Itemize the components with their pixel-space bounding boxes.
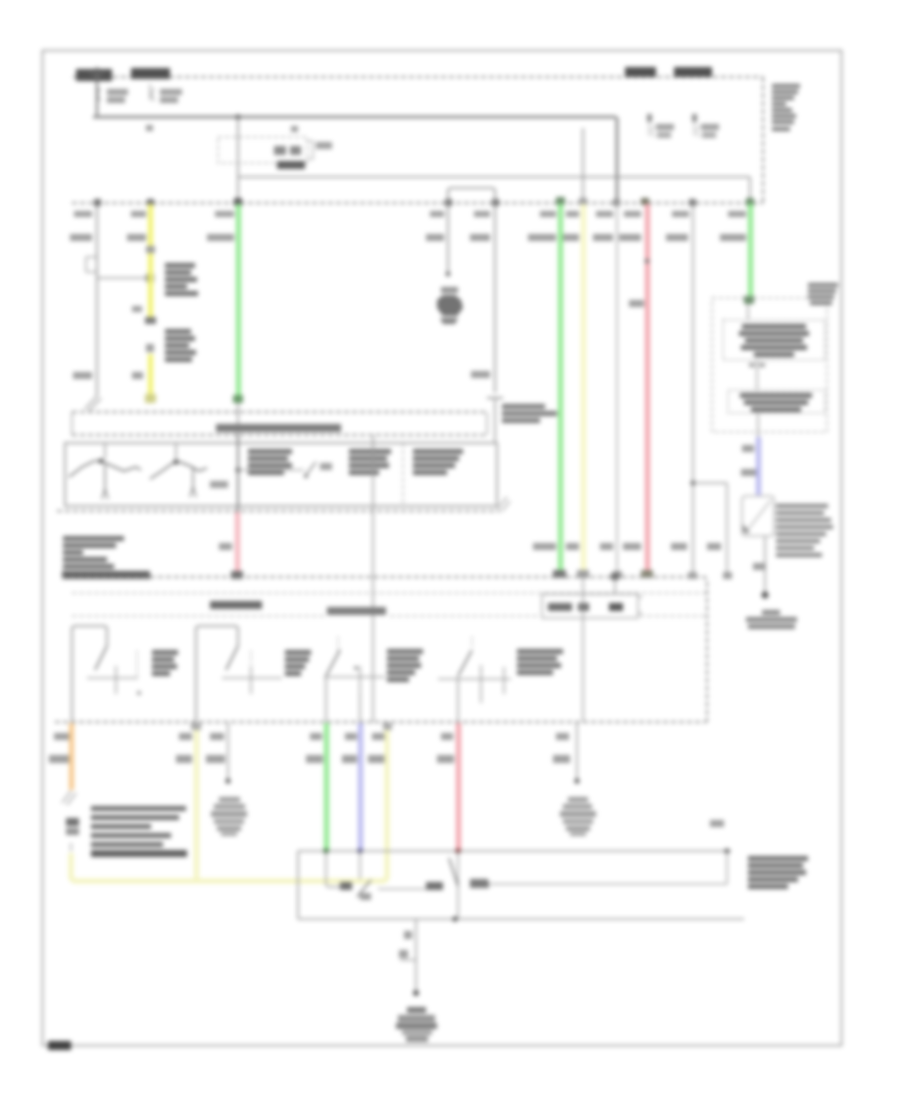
cap middle leg top (191, 723, 201, 730)
label on red mid (629, 300, 644, 307)
wire stub (582, 128, 584, 203)
node dot U left end (446, 272, 451, 277)
pin label 1 (146, 125, 153, 131)
wire battery feed (89, 67, 105, 117)
ground G404 symbol (396, 1007, 437, 1042)
node dots on box top (323, 848, 729, 853)
connector arrow orange (62, 791, 76, 805)
wire blue BLU right (756, 437, 761, 495)
connector corner box right (497, 497, 510, 511)
relay 4 wires down (457, 677, 459, 722)
wire passing through box (237, 435, 239, 512)
multiplex inner unit 2 (dashed) (728, 390, 825, 413)
relay strip header line 2 dashed (72, 615, 706, 617)
fuse F23 (86, 256, 97, 278)
ground dot G401 (225, 778, 230, 783)
connector arrow left (85, 396, 101, 411)
wire long in box (470, 851, 727, 887)
cap red bottom (641, 570, 653, 578)
cap green G3 (744, 296, 754, 304)
fuse box label 1 (76, 69, 112, 81)
bulb component (437, 287, 463, 324)
bracket right between C2 C3 (486, 412, 488, 435)
labels above bus C5 (533, 543, 721, 550)
ground G402 symbol (560, 811, 596, 836)
bus C4 dashed (57, 510, 500, 512)
wire main power bus (thick) (93, 117, 617, 203)
combination light switch label (216, 424, 341, 432)
ground G402 label (563, 797, 592, 809)
relay 4 contact arm (458, 650, 472, 676)
cap green G1 (233, 395, 243, 403)
cap pale yellow bottom (577, 570, 589, 578)
node hot-at-all-times bus (top dashed) (73, 77, 763, 203)
wire to ground right (764, 536, 766, 592)
relay name label (277, 161, 305, 169)
wire horizontal feeder (238, 177, 750, 203)
label left of yellow (132, 372, 143, 379)
relay 1 contact arm (95, 646, 107, 670)
small connector box B234 (542, 594, 642, 618)
connector tick labels (399, 931, 416, 960)
ground label text (746, 610, 797, 629)
label WHT mid (471, 371, 490, 378)
cap yellow top of C2 (145, 397, 155, 403)
ground G401 symbol (211, 811, 247, 836)
relay 1 coil bar (87, 651, 141, 695)
node dot in box (236, 468, 241, 473)
switch wave 1 (69, 458, 141, 499)
note text connector mid (502, 404, 557, 423)
pin labels row 1 below bus C1 (74, 211, 746, 217)
label off small (210, 481, 228, 488)
relay 2 note text (285, 650, 311, 676)
pin label 2 (291, 126, 298, 132)
relay 4 coil bar (438, 665, 511, 703)
wire U loop city light (448, 188, 495, 393)
combination switch box (65, 443, 497, 506)
wire 583 through strip (582, 577, 584, 722)
note text dimmer (413, 449, 463, 475)
note text block bottom left (91, 806, 187, 857)
fuse F2 (150, 84, 182, 103)
relay 1 note text (152, 650, 178, 676)
multiplex control unit box (dashed) (712, 298, 827, 432)
lighting label on line 2 (327, 607, 386, 615)
diode D1 (647, 114, 674, 138)
switch leg green (326, 851, 352, 890)
label WHT left (73, 372, 92, 379)
wire color labels row below bus C6 (49, 755, 570, 763)
note text passing (349, 449, 391, 475)
switch leg blue (357, 851, 371, 900)
wire blue lower (358, 723, 363, 850)
dashed divider (402, 443, 404, 506)
wire yellow YEL segment 2 (148, 253, 153, 317)
wire gray thin long (616, 203, 618, 577)
wire to ground G402 (576, 723, 578, 779)
wire connector between units (749, 360, 765, 390)
contact cluster (304, 462, 332, 478)
bracket left between C2 C3 (71, 412, 73, 435)
switch leg red (449, 851, 458, 922)
cap yellow end (145, 394, 156, 402)
wire to ground G401 (227, 723, 229, 779)
label B6 (742, 445, 754, 452)
wire pale yellow U loop bottom (71, 725, 387, 881)
wire yellow YEL segment 3 (148, 354, 153, 394)
wire link in box (238, 469, 304, 471)
wire red long (645, 204, 650, 572)
note text block left (62, 536, 150, 579)
wire green lower (324, 723, 329, 850)
node connector bus C1 (dashed) (72, 202, 763, 204)
wire branch right (693, 483, 727, 577)
wire branch to bus (237, 117, 239, 203)
note text connector (165, 329, 196, 362)
fuse box label 3 (625, 67, 656, 77)
cap pink bottom (231, 571, 243, 579)
note text right of flag (776, 504, 833, 557)
diode D2 (692, 114, 719, 138)
node dot on red (645, 259, 650, 264)
cap wire 727 bottom (723, 572, 732, 579)
cap wire 617 bottom (613, 571, 622, 578)
cap loop right top (383, 723, 392, 730)
wire left column lower (96, 278, 98, 396)
dimmer switch box (298, 851, 744, 919)
wire inside multiplex (747, 304, 749, 320)
stub bus to B box (611, 573, 619, 594)
note text fuse 23 (165, 263, 198, 296)
wire pink from switch (235, 512, 240, 572)
ground dot G404 (413, 990, 419, 996)
switch wave 2 (150, 459, 207, 497)
pin labels row below bus C6 (54, 733, 569, 740)
relay 4 note text (517, 649, 563, 675)
wire gray continuation of G1 (237, 403, 239, 435)
label G501 wire (753, 563, 766, 570)
ground dot right (761, 591, 768, 598)
bus C6 dashed (55, 721, 706, 723)
wire color labels row 2 below bus C1 (70, 234, 746, 241)
switch stub 1 (104, 443, 106, 459)
CPM relay label (210, 601, 262, 609)
relay 2 coil bar (222, 651, 282, 694)
relay dashed box (218, 137, 332, 163)
wire red lower (456, 723, 461, 850)
label 14 (146, 344, 154, 352)
label A (132, 306, 142, 312)
cap green G2 bottom (553, 570, 566, 578)
relay strip header line 1 dashed (72, 592, 706, 594)
wire green G2 long (558, 204, 563, 572)
bus C5 dashed (62, 577, 707, 722)
wire gray mid long (692, 203, 694, 577)
relay 1 coil loop (72, 626, 107, 722)
switch stub 2 (175, 443, 177, 461)
link bar (378, 882, 443, 890)
connector caps on bus C1 (94, 197, 754, 206)
multiplex inner unit 1 (dashed) (723, 320, 825, 360)
node junction on power bus (235, 114, 240, 119)
wire from box to bus (372, 435, 374, 722)
wire green G3 to multiplex (748, 204, 753, 297)
label BLU (741, 469, 756, 476)
fuse box label 2 (131, 68, 170, 79)
wire below box to ground (415, 919, 417, 990)
label C750 floating (710, 820, 724, 827)
bus C2 dashed (72, 411, 487, 413)
page number label (48, 1041, 71, 1050)
note text top right (772, 84, 800, 131)
connector in yellow (146, 246, 155, 253)
connector C in yellow (145, 317, 156, 324)
relay 2 coil loop (196, 626, 238, 722)
note text right of dimmer box (748, 856, 808, 889)
note text right of box top (808, 283, 838, 305)
ground G401 label (214, 797, 245, 809)
wire orange ORN (69, 723, 74, 790)
note text in box (248, 449, 292, 475)
fuse F1 (98, 88, 128, 103)
fuse box label 4 (674, 67, 712, 77)
wire pale yellow long (581, 204, 586, 572)
wire below multiplex (757, 413, 759, 437)
wire left column (96, 206, 98, 256)
cap wire 693 bottom (688, 572, 697, 579)
relay 3 actuator dashed (337, 637, 339, 652)
wire jumper to yellow (97, 274, 154, 282)
relay 3 coil bar (324, 666, 385, 694)
relay 3 wires down (326, 677, 360, 722)
label OFF in box (470, 881, 489, 888)
relay 3 note text (387, 649, 423, 682)
label RED pink (219, 543, 232, 550)
relay 4 actuator dashed (471, 637, 473, 648)
ground dot G402 (574, 778, 579, 783)
relay 2 contact arm (226, 646, 238, 670)
relay 3 contact arm (326, 650, 340, 676)
connector flag symbol (742, 496, 774, 536)
connector blobs orange (66, 818, 79, 851)
bus C3 dashed (72, 434, 487, 436)
wire green G1 (236, 204, 241, 396)
wire yellow YEL segment 1 (148, 204, 153, 246)
connector collar mid (487, 398, 503, 443)
node dot branch (691, 481, 696, 486)
wire pale yellow middle leg (194, 723, 199, 879)
